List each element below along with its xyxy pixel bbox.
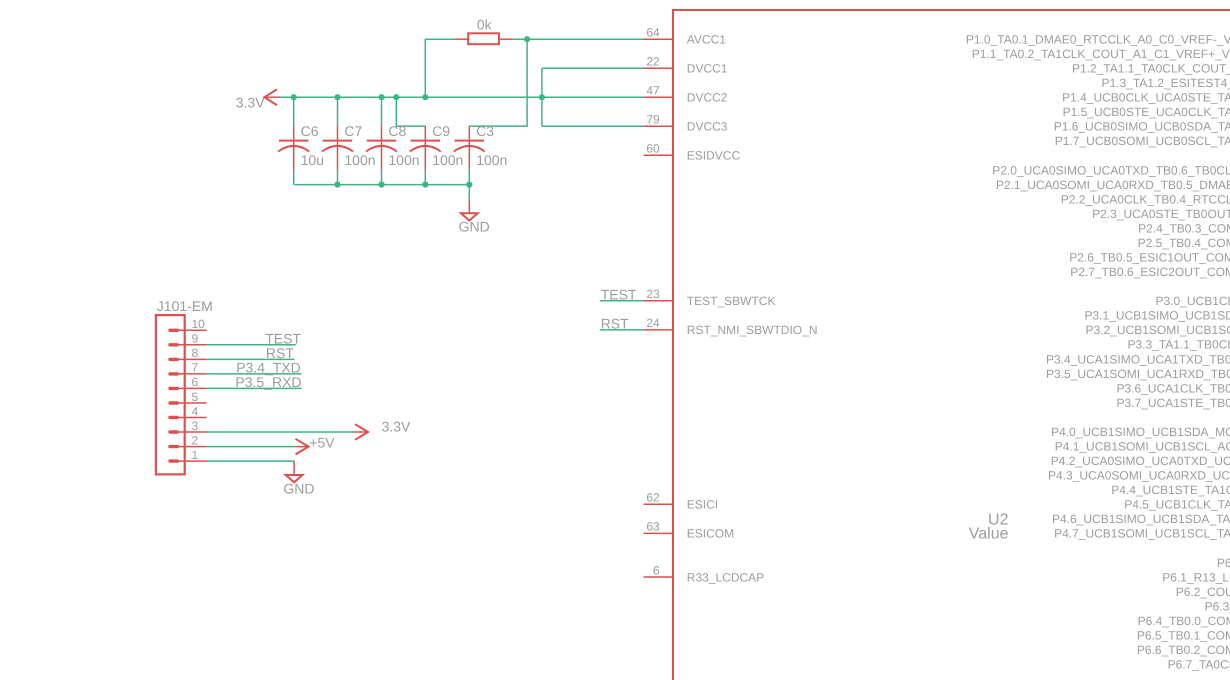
svg-text:GND: GND xyxy=(459,219,490,235)
svg-text:6: 6 xyxy=(653,563,660,577)
wire net P3.4_TXD from J101 pin 7 xyxy=(207,373,302,375)
svg-text:GND: GND xyxy=(283,480,314,496)
svg-text:100n: 100n xyxy=(388,152,419,168)
svg-text:P6.6_TB0.2_COM2: P6.6_TB0.2_COM2 xyxy=(1137,643,1230,657)
wire 3.3V net from J101 pin 3 xyxy=(207,431,353,433)
ground GND symbol below C3 xyxy=(459,199,490,234)
wire net TEST from J101 pin 9 xyxy=(207,344,296,346)
svg-text:P1.3_TA1.2_ESITEST4_A3_C3: P1.3_TA1.2_ESITEST4_A3_C3 xyxy=(1102,76,1230,90)
svg-text:0k: 0k xyxy=(477,16,493,32)
svg-text:62: 62 xyxy=(646,491,660,505)
junction 3.3V rail / DVCC vertical xyxy=(539,94,545,100)
IC U2 pin 60 ESIDVCC xyxy=(644,142,741,163)
svg-text:47: 47 xyxy=(646,84,660,98)
svg-text:C6: C6 xyxy=(301,123,319,139)
svg-text:P3.5_UCA1SOMI_UCA1RXD_TB0.1: P3.5_UCA1SOMI_UCA1RXD_TB0.1 xyxy=(1046,367,1230,381)
svg-text:DVCC2: DVCC2 xyxy=(687,91,728,105)
svg-text:P6.2_COUT: P6.2_COUT xyxy=(1176,585,1230,599)
wire cap bottom x=469.3 xyxy=(468,169,470,184)
GND rail under capacitors xyxy=(294,184,469,186)
svg-text:P3.2_UCB1SOMI_UCB1SCL_TA1.2: P3.2_UCB1SOMI_UCB1SCL_TA1.2 xyxy=(1086,323,1230,337)
svg-text:23: 23 xyxy=(646,287,660,301)
3.3V power rail net xyxy=(280,96,644,98)
supply symbol +5V at J101 pin 2 xyxy=(296,435,336,455)
svg-text:24: 24 xyxy=(646,316,660,330)
svg-text:P2.3_UCA0STE_TB0OUTH: P2.3_UCA0STE_TB0OUTH xyxy=(1092,207,1230,221)
svg-text:P3.6_UCA1CLK_TB0.2: P3.6_UCA1CLK_TB0.2 xyxy=(1117,381,1230,395)
resistor R1 left pin stub xyxy=(455,38,468,40)
resistor R1 right pin stub xyxy=(499,38,513,40)
svg-text:P2.6_TB0.5_ESIC1OUT_COM6: P2.6_TB0.5_ESIC1OUT_COM6 xyxy=(1069,251,1230,265)
IC U2 pin 64 AVCC1 xyxy=(644,26,727,47)
wire +5V net from J101 pin 2 xyxy=(207,446,297,448)
wire GND net from J101 pin 1 xyxy=(207,460,295,462)
wire C8 top feed xyxy=(381,97,383,126)
svg-text:P1.7_UCB0SOMI_UCB0SCL_TA0.2_C7: P1.7_UCB0SOMI_UCB0SCL_TA0.2_C7 xyxy=(1055,134,1230,148)
svg-text:60: 60 xyxy=(646,142,660,156)
svg-text:P1.4_UCB0CLK_UCA0STE_TA1.0_A4_: P1.4_UCB0CLK_UCA0STE_TA1.0_A4_C4 xyxy=(1062,91,1230,105)
wire from 3.3V rail up to resistor left terminal xyxy=(425,39,455,97)
svg-text:AVCC1: AVCC1 xyxy=(687,33,726,47)
junction AVCC at resistor output xyxy=(524,36,530,42)
svg-text:100n: 100n xyxy=(344,152,375,168)
svg-text:P3.7_UCA1STE_TB0.3: P3.7_UCA1STE_TB0.3 xyxy=(1117,396,1230,410)
wire net RST stub at IC pin 24 xyxy=(600,329,644,331)
svg-text:ESIDVCC: ESIDVCC xyxy=(687,149,741,163)
svg-text:ESICOM: ESICOM xyxy=(687,527,734,541)
wire cap bottom x=337.5 xyxy=(337,169,339,184)
capacitor C3 100n xyxy=(454,123,508,170)
wire C7 top feed xyxy=(337,97,339,126)
J101 pin 10 xyxy=(170,317,207,331)
svg-text:P1.6_UCB0SIMO_UCB0SDA_TA0.1_C6: P1.6_UCB0SIMO_UCB0SDA_TA0.1_C6 xyxy=(1054,120,1230,134)
svg-text:P3.1_UCB1SIMO_UCB1SDA_TA1.1: P3.1_UCB1SIMO_UCB1SDA_TA1.1 xyxy=(1085,309,1230,323)
svg-text:J101-EM: J101-EM xyxy=(157,298,213,314)
supply symbol 3.3V (left, net 3V3) xyxy=(236,89,280,110)
svg-text:C8: C8 xyxy=(388,123,406,139)
J101 pin 5 xyxy=(170,390,207,404)
wire net TEST stub at IC pin 23 xyxy=(600,300,644,302)
svg-text:P4.0_UCB1SIMO_UCB1SDA_MCLK: P4.0_UCB1SIMO_UCB1SDA_MCLK xyxy=(1051,425,1230,439)
svg-text:5: 5 xyxy=(192,390,199,404)
svg-text:Value: Value xyxy=(969,525,1009,542)
svg-text:P4.1_UCB1SOMI_UCB1SCL_ACLK: P4.1_UCB1SOMI_UCB1SCL_ACLK xyxy=(1055,440,1230,454)
svg-text:P4.4_UCB1STE_TA1CLK: P4.4_UCB1STE_TA1CLK xyxy=(1111,483,1230,497)
junction GND rail x=425.3 xyxy=(422,182,428,188)
svg-text:4: 4 xyxy=(192,404,199,418)
svg-text:TEST_SBWTCK: TEST_SBWTCK xyxy=(687,294,776,308)
svg-text:+5V: +5V xyxy=(309,435,335,451)
svg-text:RST: RST xyxy=(601,316,629,332)
svg-text:DVCC1: DVCC1 xyxy=(687,62,728,76)
wire GND stub below junction xyxy=(468,185,470,200)
svg-text:100n: 100n xyxy=(476,152,507,168)
J101 pin 2 xyxy=(170,433,207,447)
wire DVCC vertical between pin22 and pin79 wires xyxy=(541,68,543,126)
svg-text:P3.4_UCA1SIMO_UCA1TXD_TB0.0: P3.4_UCA1SIMO_UCA1TXD_TB0.0 xyxy=(1046,352,1230,366)
svg-text:9: 9 xyxy=(192,332,199,346)
svg-text:ESICI: ESICI xyxy=(687,498,718,512)
svg-text:P2.4_TB0.3_COM4: P2.4_TB0.3_COM4 xyxy=(1138,222,1230,236)
svg-text:3.3V: 3.3V xyxy=(382,419,411,435)
svg-text:7: 7 xyxy=(192,361,199,375)
J101 pin 1 xyxy=(170,448,207,462)
svg-text:P2.2_UCA0CLK_TB0.4_RTCCLK: P2.2_UCA0CLK_TB0.4_RTCCLK xyxy=(1061,192,1230,206)
svg-text:DVCC3: DVCC3 xyxy=(687,120,728,134)
svg-text:P1.0_TA0.1_DMAE0_RTCCLK_A0_C0_: P1.0_TA0.1_DMAE0_RTCCLK_A0_C0_VREF-_VERE… xyxy=(966,33,1230,47)
svg-text:P1.5_UCB0STE_UCA0CLK_TA0.0_A5_: P1.5_UCB0STE_UCA0CLK_TA0.0_A5_C5 xyxy=(1063,105,1230,119)
svg-text:P3.3_TA1.1_TB0CLK: P3.3_TA1.1_TB0CLK xyxy=(1128,338,1230,352)
svg-text:3.3V: 3.3V xyxy=(236,95,265,111)
svg-text:P2.1_UCA0SOMI_UCA0RXD_TB0.5_DM: P2.1_UCA0SOMI_UCA0RXD_TB0.5_DMAE0 xyxy=(996,178,1230,192)
wire cap bottom x=381.5 xyxy=(381,169,383,184)
IC U2 pin 62 ESICI xyxy=(644,491,719,512)
wire cap bottom x=293.7 xyxy=(293,169,295,184)
svg-text:6: 6 xyxy=(192,375,199,389)
junction 3.3V rail x=381.5 xyxy=(378,94,384,100)
wire cap bottom x=425.3 xyxy=(424,169,426,184)
svg-text:C3: C3 xyxy=(476,123,494,139)
svg-text:P1.1_TA0.2_TA1CLK_COUT_A1_C1_V: P1.1_TA0.2_TA1CLK_COUT_A1_C1_VREF+_VEREF… xyxy=(972,47,1230,61)
connector J101 body xyxy=(156,315,185,474)
IC U2 pin 63 ESICOM xyxy=(644,520,735,541)
wire DVCC3 to IC pin 79 xyxy=(542,125,644,127)
IC U2 pin 79 DVCC3 xyxy=(644,113,728,134)
J101 pin 8 xyxy=(170,346,207,360)
svg-text:2: 2 xyxy=(192,433,199,447)
svg-text:RST_NMI_SBWTDIO_N: RST_NMI_SBWTDIO_N xyxy=(687,323,818,337)
junction 3.3V rail x=337.5 xyxy=(334,94,340,100)
junction 3.3V rail x=293.7 xyxy=(291,94,297,100)
wire DVCC1 to IC pin 22 xyxy=(542,67,644,69)
junction GND rail x=381.5 xyxy=(378,182,384,188)
svg-text:79: 79 xyxy=(646,113,660,127)
svg-text:P4.7_UCB1SOMI_UCB1SCL_TA0.1: P4.7_UCB1SOMI_UCB1SCL_TA0.1 xyxy=(1054,527,1230,541)
resistor R1 0k body xyxy=(468,33,499,44)
IC U2 pin 6 R33_LCDCAP xyxy=(644,563,765,584)
J101 pin 9 xyxy=(170,332,207,346)
J101 pin 3 xyxy=(170,419,207,433)
wire AVCC net: resistor right to IC pin 64 xyxy=(513,38,644,40)
J101 pin 6 xyxy=(170,375,207,389)
svg-text:P6.1_R13_LCD: P6.1_R13_LCD xyxy=(1162,570,1230,584)
svg-text:P6.0_R: P6.0_R xyxy=(1217,556,1230,570)
svg-text:P3.0_UCB1CLK_TA1.0: P3.0_UCB1CLK_TA1.0 xyxy=(1156,294,1230,308)
svg-text:P2.0_UCA0SIMO_UCA0TXD_TB0.6_TB: P2.0_UCA0SIMO_UCA0TXD_TB0.6_TB0CLK_ACLK xyxy=(992,163,1230,177)
ground GND symbol below J101 pin 1 xyxy=(283,461,314,496)
svg-text:C7: C7 xyxy=(344,123,362,139)
IC U2 pin 24 RST_NMI_SBWTDIO_N xyxy=(644,316,818,337)
wire C9 top feed with jog xyxy=(396,97,425,126)
svg-text:1: 1 xyxy=(192,448,199,462)
capacitor C7 100n xyxy=(322,123,376,170)
IC U2 pin 47 DVCC2 xyxy=(644,84,728,105)
junction GND rail x=337.5 xyxy=(334,182,340,188)
svg-text:P1.2_TA1.1_TA0CLK_COUT_A2_C2: P1.2_TA1.1_TA0CLK_COUT_A2_C2 xyxy=(1072,62,1230,76)
svg-text:10u: 10u xyxy=(301,152,324,168)
svg-text:P6.3_A: P6.3_A xyxy=(1205,599,1230,613)
wire net P3.5_RXD from J101 pin 6 xyxy=(207,387,302,389)
svg-text:C9: C9 xyxy=(432,123,450,139)
svg-text:P2.5_TB0.4_COM5: P2.5_TB0.4_COM5 xyxy=(1138,236,1230,250)
IC U2 pin 23 TEST_SBWTCK xyxy=(644,287,776,308)
junction 3.3V rail x=425.3 xyxy=(422,94,428,100)
svg-text:8: 8 xyxy=(192,346,199,360)
svg-text:P4.5_UCB1CLK_TA1.1: P4.5_UCB1CLK_TA1.1 xyxy=(1124,498,1230,512)
svg-text:P4.6_UCB1SIMO_UCB1SDA_TA0.0: P4.6_UCB1SIMO_UCB1SDA_TA0.0 xyxy=(1052,512,1230,526)
IC U2 pin 22 DVCC1 xyxy=(644,55,728,76)
capacitor C8 100n xyxy=(366,123,420,170)
svg-text:10: 10 xyxy=(192,317,206,331)
junction GND rail x=469.3 xyxy=(466,182,472,188)
wire AVCC net: vertical down then left to C3 top xyxy=(469,39,527,126)
svg-text:P6.4_TB0.0_COM0: P6.4_TB0.0_COM0 xyxy=(1138,614,1230,628)
J101 pin 4 xyxy=(170,404,207,418)
J101 pin 7 xyxy=(170,361,207,375)
svg-text:TEST: TEST xyxy=(265,331,301,347)
svg-text:22: 22 xyxy=(646,55,660,69)
svg-text:3: 3 xyxy=(192,419,199,433)
capacitor C6 10u xyxy=(278,123,324,170)
wire C6 top feed xyxy=(293,97,295,126)
svg-text:63: 63 xyxy=(646,520,660,534)
svg-text:P2.7_TB0.6_ESIC2OUT_COM7: P2.7_TB0.6_ESIC2OUT_COM7 xyxy=(1070,265,1230,279)
svg-text:P4.2_UCA0SIMO_UCA0TXD_UCA1SIMO: P4.2_UCA0SIMO_UCA0TXD_UCA1SIMO xyxy=(1051,454,1230,468)
svg-text:P6.7_TA0CLK: P6.7_TA0CLK xyxy=(1168,658,1230,672)
svg-text:P4.3_UCA0SOMI_UCA0RXD_UCA1SOMI: P4.3_UCA0SOMI_UCA0RXD_UCA1SOMI xyxy=(1048,469,1230,483)
svg-text:R33_LCDCAP: R33_LCDCAP xyxy=(687,570,764,584)
supply symbol 3.3V at J101 pin 3 xyxy=(353,419,411,440)
svg-text:P6.5_TB0.1_COM1: P6.5_TB0.1_COM1 xyxy=(1137,628,1230,642)
junction 3.3V rail x=396.3 xyxy=(393,94,399,100)
capacitor C9 100n xyxy=(410,123,464,170)
svg-text:64: 64 xyxy=(646,26,660,40)
svg-text:TEST: TEST xyxy=(601,287,637,303)
svg-text:P3.5_RXD: P3.5_RXD xyxy=(235,374,301,390)
op IC U2 outline (left and top border, extends off-canvas) xyxy=(673,10,1230,680)
svg-text:100n: 100n xyxy=(432,152,463,168)
wire net RST from J101 pin 8 xyxy=(207,358,295,360)
